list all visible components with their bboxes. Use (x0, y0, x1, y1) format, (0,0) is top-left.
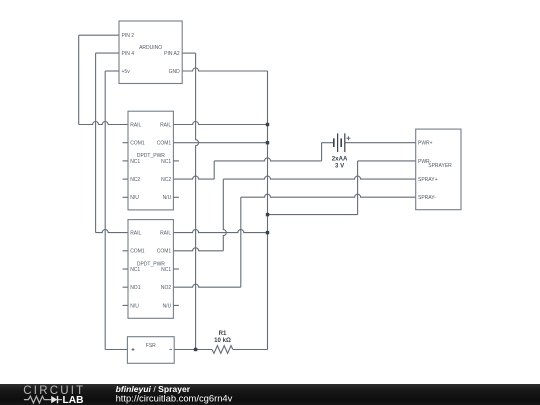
wire NC2 to battery minus (hop) (214, 158, 321, 161)
wire relay1 COM1 right (173, 142, 267, 144)
svg-text:NO1: NO1 (130, 285, 141, 291)
wire battery plus to PWR+ (345, 142, 416, 144)
svg-text:PIN A2: PIN A2 (164, 51, 180, 57)
svg-text:N/U: N/U (163, 303, 172, 309)
svg-text:N/U: N/U (130, 195, 139, 201)
node junction FSR/R1/PIN A2 (194, 348, 197, 351)
svg-text:3 V: 3 V (335, 163, 345, 170)
svg-text:PIN 2: PIN 2 (122, 33, 135, 39)
svg-text:NC1: NC1 (130, 267, 140, 273)
wire PWR- vertical (357, 161, 359, 215)
wire relay2 RAIL right (hops) (173, 230, 267, 233)
svg-text:RAIL: RAIL (130, 231, 141, 237)
wire battery minus vertical (321, 143, 323, 161)
wire SPRAY- horizontal (hops) (241, 194, 416, 197)
wire PIN2 to left (79, 34, 119, 36)
svg-text:RAIL: RAIL (130, 122, 141, 128)
wire PIN2 vertical (78, 35, 80, 124)
CircuitLab logo (23, 385, 85, 405)
svg-text:NC1: NC1 (161, 159, 171, 165)
wire PWR- horizontal (358, 160, 416, 162)
pin stubs relay1 (123, 142, 129, 144)
wire relay2 NO2 right (hop) (173, 284, 240, 287)
svg-text:ARDUINO: ARDUINO (139, 45, 162, 51)
relay K2 DPDT_PWR (128, 220, 173, 319)
wire GND vertical bus (267, 71, 269, 350)
svg-text:COM1: COM1 (130, 141, 145, 147)
wire to relay2 RAIL left (hop) (96, 230, 128, 233)
svg-text:R1: R1 (219, 330, 227, 337)
resistor R1 10k (212, 346, 233, 354)
wire SPRAY+ horizontal (hops) (223, 176, 415, 179)
force sensor FSR (127, 337, 174, 364)
battery V1 2xAA 3V (333, 138, 335, 147)
wire PIN4 vertical (95, 53, 97, 233)
pin stubs relay2 (123, 250, 129, 252)
svg-text:NC1: NC1 (130, 159, 140, 165)
svg-text:NC1: NC1 (161, 267, 171, 273)
wire +5v to left (105, 70, 119, 72)
svg-text:10 kΩ: 10 kΩ (214, 337, 231, 344)
wire +5v vertical (104, 71, 106, 350)
svg-text:2xAA: 2xAA (332, 155, 348, 162)
svg-text:N/U: N/U (163, 195, 172, 201)
svg-text:NO2: NO2 (161, 285, 172, 291)
wire GND to right (hop) (182, 68, 267, 71)
wire NC2 vertical up (213, 161, 215, 179)
svg-text:COM1: COM1 (157, 249, 172, 255)
relay K1 DPDT_PWR (128, 111, 173, 210)
svg-text:FSR: FSR (146, 343, 156, 349)
svg-text:SPRAYER: SPRAYER (428, 163, 452, 169)
wire R1 right to ground bus (233, 349, 268, 351)
wire PWR- branch to ground bus (268, 214, 358, 216)
svg-text:PWR+: PWR+ (418, 141, 433, 147)
wire PIN A2 to right (182, 52, 195, 54)
wire FSR right (174, 349, 195, 351)
node junction COM1/GND (266, 141, 269, 144)
arduino module U1 ARDUINO (119, 21, 182, 84)
svg-text:LAB: LAB (63, 395, 84, 405)
wire to R1 left (196, 349, 212, 351)
wire relay1 NC2 right (hop) (173, 176, 214, 179)
svg-text:PIN 4: PIN 4 (122, 51, 135, 57)
node junction RAIL2/GND (266, 231, 269, 234)
wire to relay1 RAIL left (hops) (79, 122, 128, 125)
svg-text:COM1: COM1 (130, 249, 145, 255)
node junction PWR-/GND (266, 213, 269, 216)
svg-text:NC2: NC2 (130, 177, 140, 183)
svg-text:+5v: +5v (122, 69, 131, 75)
wire battery minus horizontal (322, 142, 334, 144)
svg-text:COM1: COM1 (157, 141, 172, 147)
wire PIN A2 vertical (hop at COM1) (196, 53, 199, 349)
svg-text:GND: GND (169, 69, 181, 75)
wire NO2 up to SPRAY- (240, 197, 242, 287)
svg-text:SPRAY+: SPRAY+ (418, 177, 438, 183)
wire relay2 COM1 right (hop) (173, 248, 223, 251)
wire to FSR left (105, 349, 127, 351)
svg-text:RAIL: RAIL (160, 231, 171, 237)
FSR polarity marks (132, 348, 135, 351)
svg-text:NC2: NC2 (161, 177, 171, 183)
battery plus mark (346, 136, 350, 140)
svg-text:N/U: N/U (130, 303, 139, 309)
sprayer module SPRAYER (416, 129, 461, 210)
svg-text:RAIL: RAIL (160, 122, 171, 128)
wire PIN4 to left (96, 52, 119, 54)
wire COM1 up to SPRAY+ (hop) (223, 179, 226, 251)
node junction RAIL1/GND (266, 123, 269, 126)
svg-text:SPRAY-: SPRAY- (418, 195, 436, 201)
svg-text:http://circuitlab.com/cg6rn4v: http://circuitlab.com/cg6rn4v (116, 393, 233, 404)
wire relay1 RAIL right (hop) (173, 122, 267, 125)
